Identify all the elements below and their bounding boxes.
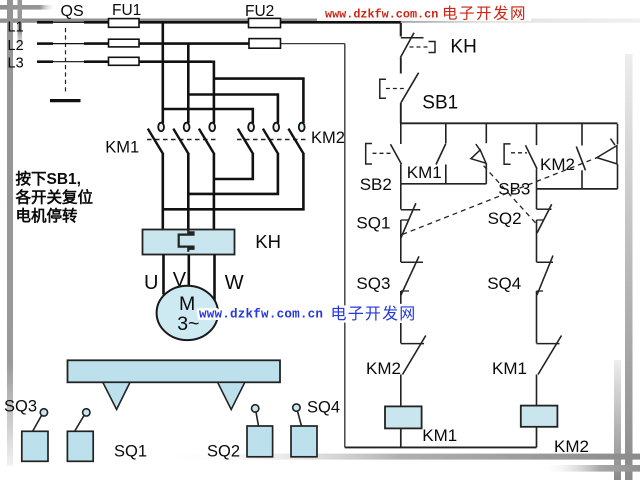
svg-text:SB2: SB2 <box>360 175 392 194</box>
svg-text:SB1: SB1 <box>422 92 458 113</box>
wire L3 phase line <box>37 60 213 63</box>
thermal relay KH heater box <box>143 230 235 255</box>
contactor KM1 contact a <box>148 123 164 155</box>
wire L3 drop to KM1 contact c <box>213 61 216 124</box>
svg-text:SB3: SB3 <box>498 179 530 198</box>
svg-text:电子开发网: 电子开发网 <box>331 305 417 323</box>
wire KH to motor W <box>213 255 216 302</box>
pushbutton SB1 stop <box>380 73 419 103</box>
svg-text:KM2: KM2 <box>554 437 589 456</box>
switch QS handle bar <box>50 99 81 102</box>
mechanical linkage dashed SQ1 to arrow 2 <box>402 158 597 235</box>
svg-text:QS: QS <box>61 3 84 20</box>
wire L1 drop to KM1 contact a <box>162 22 165 123</box>
thermal relay KH heater element symbol <box>179 230 194 252</box>
fuse FU1 pole 1 <box>109 19 140 28</box>
mechanical linkage dashed arrow 1 to SQ2 <box>484 166 537 225</box>
svg-text:KH: KH <box>255 231 281 252</box>
cam dog 2 <box>218 382 245 409</box>
svg-text:W: W <box>225 272 244 294</box>
wire L2 branch to KM2 contact b <box>188 95 278 124</box>
svg-text:3~: 3~ <box>177 313 199 335</box>
wire L2 phase line <box>37 42 249 45</box>
svg-text:电子开发网: 电子开发网 <box>442 4 527 22</box>
fuse FU2 pole 1 <box>249 18 281 27</box>
svg-text:www.dzkfw.com.cn: www.dzkfw.com.cn <box>199 308 323 322</box>
wire control feed from L1 <box>400 23 402 37</box>
wire KH to motor V <box>188 255 191 287</box>
wire L2 control feed thin <box>281 43 345 45</box>
svg-text:KM2: KM2 <box>311 129 345 147</box>
wire L1 phase line <box>37 21 401 24</box>
svg-text:SQ2: SQ2 <box>488 209 522 228</box>
wire KM2 contact a output crossover to phase c <box>214 154 253 179</box>
wire KM1 contact a output <box>162 154 165 230</box>
fuse FU2 pole 2 <box>249 39 281 49</box>
svg-text:SQ4: SQ4 <box>487 274 521 293</box>
wire L1 branch to KM2 contact a <box>163 109 253 123</box>
svg-text:V: V <box>173 269 187 291</box>
svg-text:FU1: FU1 <box>112 2 141 19</box>
control bottom bus <box>345 446 537 448</box>
wire KM1 coil to bottom bus <box>400 428 402 447</box>
svg-text:SQ4: SQ4 <box>307 398 340 416</box>
svg-text:U: U <box>144 272 158 294</box>
limit switch cam contact arrow 2 <box>597 124 618 189</box>
svg-text:KM2: KM2 <box>366 359 401 378</box>
wire KH to SB1 <box>400 58 402 74</box>
watermark top red <box>317 2 531 23</box>
cam dog 1 <box>103 382 130 409</box>
svg-text:KH: KH <box>450 36 476 57</box>
limit switch SQ4 body <box>291 404 317 457</box>
node right group junction <box>537 188 618 190</box>
control top bus <box>400 122 618 124</box>
wire KM2 contact b output crossover <box>188 154 278 194</box>
contactor KM1 contact c <box>199 123 215 155</box>
motor M 3-phase <box>157 286 218 340</box>
pushbutton SB2 forward start <box>366 123 402 184</box>
contactor KM1 auxiliary NO contact <box>436 124 446 184</box>
limit switch SQ3 body <box>22 409 48 462</box>
limit switch SQ2 NC contact <box>537 189 552 262</box>
wire control return to L2 <box>344 44 346 448</box>
contactor KM2 contact c <box>288 123 304 155</box>
limit switch SQ1 body <box>67 409 93 462</box>
limit switch SQ4 NC contact <box>537 256 554 344</box>
contactor KM1 main contacts linkage dashed <box>147 139 218 141</box>
svg-text:M: M <box>179 293 195 315</box>
svg-text:SQ2: SQ2 <box>207 442 240 460</box>
svg-text:KM1: KM1 <box>492 359 527 378</box>
note text block <box>15 169 94 225</box>
thermal relay KH NC contact <box>400 33 435 58</box>
contactor KM2 interlock NC contact <box>401 336 426 407</box>
fuse FU1 pole 3 <box>109 57 140 65</box>
svg-text:www.dzkfw.com.cn: www.dzkfw.com.cn <box>325 7 438 21</box>
watermark middle blue <box>199 305 417 323</box>
coil KM2 <box>521 406 558 427</box>
contactor KM1 interlock NC contact <box>537 336 562 406</box>
wire L2 drop to KM1 contact b <box>187 44 190 123</box>
wire SB1 to bus <box>400 103 402 124</box>
svg-text:L1: L1 <box>8 19 24 35</box>
pushbutton SB3 reverse start <box>504 124 537 189</box>
svg-text:SQ3: SQ3 <box>4 397 37 415</box>
limit switch cam contact arrow 1 <box>471 124 486 184</box>
wire KH to motor U <box>162 255 165 295</box>
svg-text:KM2: KM2 <box>540 155 575 174</box>
contactor KM2 auxiliary NO contact <box>576 124 585 189</box>
wire KM2 coil to bottom bus <box>536 427 538 448</box>
contactor KM2 main contacts linkage dashed <box>237 139 308 141</box>
svg-text:SQ1: SQ1 <box>356 213 390 232</box>
svg-text:KM1: KM1 <box>407 163 442 182</box>
mechanical travel bar <box>68 360 281 382</box>
svg-text:FU2: FU2 <box>245 3 274 20</box>
limit switch SQ2 body <box>247 405 273 457</box>
limit switch SQ1 NC contact <box>401 184 421 262</box>
wire KM1 contact c output <box>213 154 216 230</box>
wire L3 branch to KM2 contact c <box>214 79 304 123</box>
svg-text:电机停转: 电机停转 <box>16 206 79 225</box>
wire KM2 contact c output crossover to phase a <box>163 154 304 209</box>
contactor KM2 contact a <box>238 123 254 155</box>
svg-text:各开关复位: 各开关复位 <box>15 188 94 207</box>
svg-text:L2: L2 <box>8 38 24 54</box>
switch QS linkage dashed <box>65 28 67 92</box>
svg-text:KM1: KM1 <box>422 426 457 445</box>
coil KM1 <box>385 406 422 428</box>
svg-text:SQ3: SQ3 <box>356 274 390 293</box>
contactor KM1 contact b <box>173 123 189 155</box>
svg-text:KM1: KM1 <box>105 139 139 157</box>
fuse FU1 pole 2 <box>109 39 140 47</box>
limit switch SQ3 NC contact <box>401 256 423 343</box>
wire KM1 contact b output <box>187 154 190 230</box>
svg-text:L3: L3 <box>8 56 24 72</box>
svg-text:按下SB1,: 按下SB1, <box>16 169 81 188</box>
node left group junction <box>401 183 487 185</box>
svg-text:SQ1: SQ1 <box>114 442 147 460</box>
contactor KM2 contact b <box>263 123 279 155</box>
